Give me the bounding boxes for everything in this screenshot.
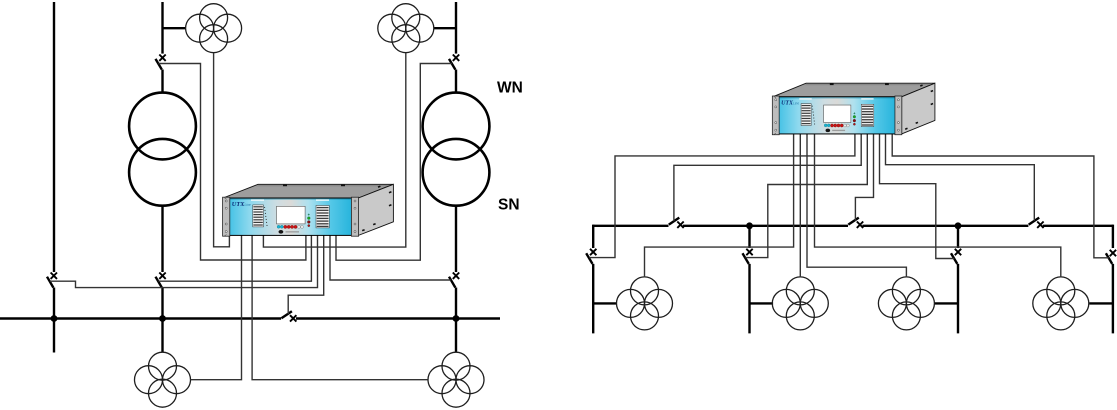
busbar section 1 — [593, 225, 668, 227]
wire: relay pin 6 to breaker QB1 — [158, 234, 311, 282]
bus tie QS1 x-mark — [677, 222, 683, 228]
CT A2 (top right, 4-winding symbol) — [378, 4, 434, 53]
CT B2 (4-winding symbol) — [772, 277, 828, 330]
wire: feeder F2 upper — [748, 226, 750, 248]
wire: relay pin 3 to CT A4 secondary — [252, 234, 428, 380]
wire: feeder F4 upper (bus right corner) — [1112, 225, 1114, 248]
wire: left feeder stub below bus — [53, 319, 55, 353]
breaker QT2 blade — [449, 59, 455, 70]
wire: CT B4 stub — [1089, 302, 1113, 304]
bus tie breaker QS3 blade — [1029, 218, 1040, 225]
transformer T2 winding WN — [423, 93, 490, 160]
wire: CT A2 stub — [434, 27, 456, 29]
transformer T1 winding WN — [129, 93, 196, 160]
wire: relay pin 10 to breaker QT2 — [336, 64, 452, 261]
breaker QB2 blade — [449, 277, 455, 288]
wire: feeder F1 upper (bus left corner) — [592, 225, 594, 248]
wire: feeder F2 lower — [748, 264, 750, 334]
wire: relay pin 2 to CT A3 secondary — [191, 234, 242, 380]
bus tie breaker QS1 blade — [669, 218, 680, 225]
wire: feeder F4 lower — [1112, 264, 1114, 334]
wire: relay pin 6 to bus tie QS1 — [674, 132, 861, 222]
wire: relay pin 4 to CT B4 — [815, 132, 1061, 278]
wire: relay pin 1 to CT A1 secondary — [214, 53, 230, 247]
node: bus junction left feeder — [51, 315, 58, 322]
bus tie breaker QC blade — [281, 311, 292, 318]
svg-text:WN: WN — [497, 80, 523, 97]
wire: relay pin 1 to CT B1 — [645, 132, 794, 278]
breaker QB2 x-mark — [453, 273, 459, 279]
wire: CT B3 stub — [934, 302, 958, 304]
wire: QT2 to transformer T2 — [455, 70, 457, 94]
relay U2 (UTX device) — [772, 83, 935, 135]
bus tie QS3 x-mark — [1037, 222, 1043, 228]
wire: transformer T1 feeder upper — [161, 2, 163, 54]
breaker QL1 blade — [47, 277, 53, 288]
svg-text:SN: SN — [498, 197, 520, 214]
CT B4 (4-winding symbol) — [1033, 277, 1089, 330]
wire: left feeder line lower segment to bus — [53, 288, 55, 319]
breaker QT1 x-mark — [159, 55, 165, 61]
busbar right section — [296, 317, 500, 319]
wire: relay pin 7 to breaker QF2 — [746, 132, 868, 258]
wire: relay pin 5 to breaker QT1 — [158, 64, 306, 261]
breaker QL1 x-mark — [51, 273, 57, 279]
wire: QB2 to bus — [455, 288, 457, 319]
wire: T1 bay below bus to CT A3 — [161, 319, 163, 353]
breaker QB1 x-mark — [159, 273, 165, 279]
wire: CT B2 stub — [750, 302, 774, 304]
wire: relay pin 4 to CT A2 secondary — [263, 53, 405, 247]
CT B1 (4-winding symbol) — [617, 277, 673, 330]
wire: CT B1 stub — [593, 302, 617, 304]
breaker QF4 blade — [1106, 253, 1112, 264]
CT A3 (bottom left, 4-winding symbol) — [135, 352, 191, 407]
breaker QF2 x-mark — [746, 249, 752, 255]
busbar section 2 — [683, 225, 848, 227]
wire: T2 bay below bus to CT A4 — [455, 319, 457, 353]
node: bus junction feeder F3 — [955, 222, 962, 229]
wire: relay pin 9 to breaker QB2 — [330, 234, 451, 281]
breaker QF2 blade — [743, 253, 749, 264]
CT A4 (bottom right, 4-winding symbol) — [428, 352, 484, 407]
breaker QF3 x-mark — [955, 249, 961, 255]
wire: left feeder line upper segment — [53, 2, 55, 272]
busbar section 4 — [1043, 225, 1113, 227]
node: bus junction feeder F2 — [746, 222, 753, 229]
wire: CT A1 stub — [163, 27, 186, 29]
wire: transformer T1 to breaker QB1 — [161, 206, 163, 273]
wire: relay pin 10 to bus tie QS3 — [886, 132, 1035, 221]
node: bus junction T2 bay — [453, 315, 460, 322]
wire: relay pin 8 to bus tie breaker QC — [288, 234, 324, 315]
breaker QF3 blade — [951, 253, 957, 264]
busbar left section — [0, 317, 281, 319]
bus tie breaker QC x-mark — [290, 315, 296, 321]
breaker QT1 blade — [156, 59, 162, 70]
breaker QF1 blade — [586, 253, 592, 264]
CT A1 (top left, 4-winding symbol) — [186, 4, 242, 53]
wire: transformer T2 feeder upper — [455, 2, 457, 54]
transformer T1 winding SN — [129, 139, 196, 206]
bus tie breaker QS2 blade — [848, 218, 859, 225]
wire: relay pin 2 to CT B2 — [799, 132, 801, 278]
wire: relay pin 5 to breaker QF1 — [589, 132, 855, 258]
wire: relay pin 8 to bus tie QS2 — [855, 132, 873, 221]
wire: relay pin 3 to CT B3 — [807, 132, 906, 278]
relay U1 (UTX device) — [223, 184, 394, 236]
wire: feeder F3 upper — [957, 226, 959, 248]
breaker QT2 x-mark — [453, 55, 459, 61]
wire: QT1 to transformer T1 — [161, 70, 163, 94]
node: bus junction T1 bay — [159, 315, 166, 322]
breaker QF1 x-mark — [590, 249, 596, 255]
breaker QB1 blade — [156, 277, 162, 288]
wire: relay pin 9 to breaker QF3 — [880, 132, 955, 259]
wire: feeder F1 lower — [592, 264, 594, 334]
bus tie QS2 x-mark — [857, 222, 863, 228]
wire: relay pin 7 to breaker QL1 — [50, 234, 318, 288]
transformer T2 winding SN — [423, 139, 490, 206]
wire: QB1 to bus — [161, 288, 163, 319]
busbar section 3 — [862, 225, 1028, 227]
wire: transformer T2 to breaker QB2 — [455, 206, 457, 273]
CT B3 (4-winding symbol) — [878, 277, 934, 330]
breaker QF4 x-mark — [1110, 250, 1116, 256]
wire: feeder F3 lower — [957, 264, 959, 334]
wire: relay pin 11 to breaker QF4 — [892, 132, 1109, 258]
